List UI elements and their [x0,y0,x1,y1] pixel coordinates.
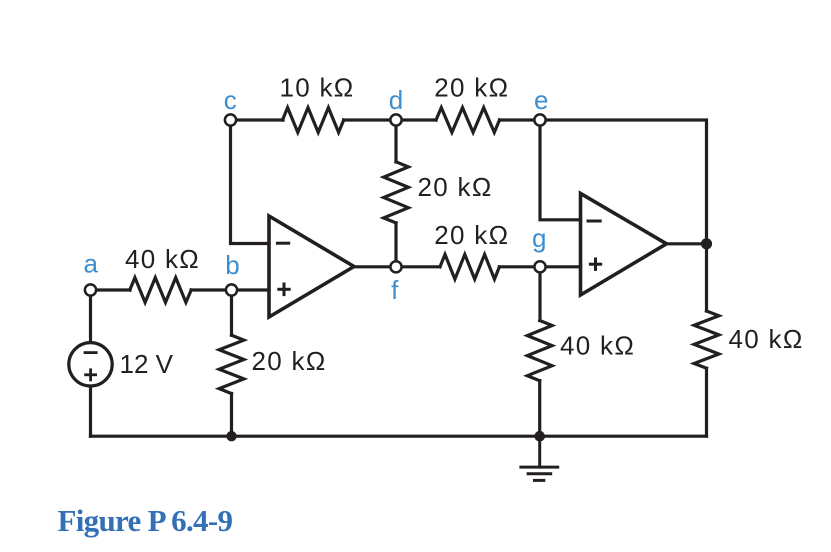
wire b down to R4 [230,290,233,335]
wire R6 to node g [499,265,540,268]
resistor R5 20 kOhm (d-f) [384,162,409,223]
op-amp U2 [581,193,667,295]
svg-text:20 kΩ: 20 kΩ [434,220,509,250]
resistor R3 40 kOhm (a-b) [130,278,191,303]
svg-text:10 kΩ: 10 kΩ [279,73,354,103]
wire b to op-amp U1 noninverting input [232,288,270,291]
resistor R1 10 kOhm (c-d) [283,108,344,133]
wire a down to source V1 [89,290,92,341]
wire R7 to bottom rail junction [538,381,541,437]
svg-text:40 kΩ: 40 kΩ [125,244,200,274]
wire c to R1 [231,118,284,121]
node a terminal [85,284,96,295]
wire c down to op-amp U1 inverting input [231,120,270,244]
wire R5 to node f [394,223,397,267]
svg-text:20 kΩ: 20 kΩ [418,172,493,202]
svg-text:b: b [225,250,239,280]
junction dot under R7 (ground node) [534,431,545,442]
svg-text:e: e [534,85,548,115]
wire f to R6 [396,265,440,268]
svg-text:12 V: 12 V [120,349,174,379]
wire d to R2 [396,118,436,121]
resistor R8 40 kOhm (output to bottom rail) [694,311,719,368]
wire R1 to node d [344,118,396,121]
svg-text:a: a [83,249,98,279]
resistor R7 40 kOhm (g to bottom rail) [527,321,552,381]
wire R2 to node e [500,118,541,121]
wire op-amp U2 output to output node [667,242,707,245]
svg-text:g: g [532,223,546,253]
node g terminal [534,261,545,272]
svg-text:20 kΩ: 20 kΩ [252,346,327,376]
wire g to op-amp U2 noninverting input [540,265,581,268]
resistor R2 20 kOhm (d-e) [436,108,500,133]
svg-text:d: d [389,85,403,115]
resistor R4 20 kOhm (b to bottom rail) [219,335,244,393]
ground [521,436,558,480]
wire g down to R7 [538,267,541,321]
wire R4 to bottom rail junction [230,394,233,437]
wire e to top-right corner down to output node [540,120,707,244]
node c terminal [225,114,236,125]
node e terminal [534,114,545,125]
resistor R6 20 kOhm (f-g) [440,254,499,279]
wire op-amp U1 output to node f [354,265,396,268]
voltage source V1 12 V [69,343,112,386]
junction dot at op-amp U2 output node [701,238,712,249]
wire R8 down to bottom rail corner [705,368,708,436]
node f terminal [390,261,401,272]
svg-text:Figure P 6.4-9: Figure P 6.4-9 [58,503,233,538]
wire R3 to node b [191,288,231,291]
op-amp U1 [269,216,354,317]
wire a to R3 [91,288,131,291]
wire source V1 bottom to bottom rail [89,387,92,436]
svg-text:40 kΩ: 40 kΩ [560,331,635,361]
node b terminal [226,284,237,295]
wire d down to R5 [394,120,397,162]
wire e down to op-amp U2 inverting input [540,120,581,220]
svg-text:f: f [391,275,399,305]
svg-text:20 kΩ: 20 kΩ [434,73,509,103]
junction dot under R4 [226,431,236,441]
wire output node down to R8 [705,244,708,311]
svg-text:40 kΩ: 40 kΩ [729,324,804,354]
svg-text:c: c [224,85,237,115]
wire bottom rail [91,435,707,438]
node d terminal [390,114,401,125]
